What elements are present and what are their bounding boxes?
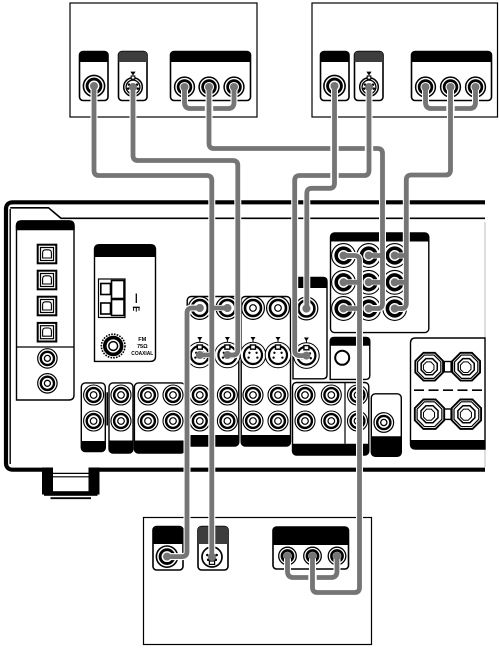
crossing gap over loop A [205, 104, 213, 113]
jack A2 [124, 76, 143, 96]
main block audio jacks [190, 385, 210, 405]
FM coaxial jack [101, 334, 125, 358]
optical block [17, 221, 75, 400]
block D3 component in [273, 527, 349, 569]
left block jacks [38, 349, 57, 368]
svg-text:75Ω: 75Ω [137, 344, 148, 350]
cable C5 s-video from device B [295, 87, 369, 356]
sub jack [374, 413, 394, 433]
jacks D3 [279, 547, 297, 565]
device A plugs [90, 82, 98, 90]
cable loop device B component [426, 86, 476, 109]
speaker terminals row1 [444, 362, 451, 372]
crossing gap over loop C [308, 573, 316, 582]
block B3 component out [412, 52, 492, 101]
tv-sat video jack [295, 297, 318, 320]
antenna wire symbol + ground [133, 294, 140, 312]
cable loop device A component [185, 86, 235, 109]
crossing gap over C5 [330, 171, 338, 180]
jack A1 [83, 75, 104, 96]
s-video jacks row [187, 342, 213, 368]
speaker dashes [414, 389, 485, 391]
s-video markers [197, 337, 202, 343]
block A3 component out [171, 52, 251, 101]
cable C4 video from device B [307, 86, 335, 309]
svg-text:COAXIAL: COAXIAL [131, 351, 154, 357]
component jacks 3x3 [332, 244, 356, 268]
sub block [371, 394, 401, 457]
audio block R [293, 383, 369, 456]
jack B1 [324, 75, 345, 96]
cable C3 component from device A [209, 86, 383, 309]
separator [106, 392, 108, 425]
foot [42, 468, 100, 499]
device C plugs [163, 553, 171, 561]
AM terminals [99, 279, 126, 318]
marker B2 [366, 72, 371, 76]
receiver right faint edge [484, 222, 486, 467]
jacks B3 [416, 77, 436, 97]
block A1 video out [80, 52, 109, 101]
block D2 s-video in [198, 527, 228, 571]
cable C1 video from device A + monitor s-video out [94, 86, 227, 557]
device B plugs [331, 82, 339, 90]
jack D2 [202, 547, 222, 567]
block B2 s-video out [355, 52, 384, 101]
block B1 video out [321, 52, 350, 101]
svg-text:FM: FM [138, 337, 146, 343]
device box C [144, 518, 372, 645]
receiver outer border [6, 202, 485, 469]
ctrl block [330, 337, 370, 379]
component plugs [340, 252, 348, 260]
video in jacks row [188, 297, 211, 320]
block A2 s-video out [119, 52, 148, 101]
foot gap in bottom border [53, 466, 89, 474]
audio block L2 [109, 383, 133, 453]
component block [331, 233, 429, 333]
speaker block [411, 338, 486, 449]
ctrl jack [335, 351, 349, 365]
cable C2 s-video from device A [133, 87, 238, 355]
tv-sat block [293, 278, 327, 379]
cable monitor video out [167, 308, 200, 557]
crossing gap over loop B [446, 104, 454, 113]
main AV block [187, 297, 239, 447]
audio block L3 [134, 383, 185, 453]
audio block L1 [81, 383, 105, 452]
antenna block [95, 245, 156, 362]
block D1 video in [153, 527, 183, 571]
optical connectors [38, 245, 57, 264]
marker A2 [130, 72, 135, 76]
device box B [312, 3, 498, 117]
device box A [70, 3, 257, 117]
crossing gaps over C3 [330, 144, 338, 153]
cable C6 component from device B [395, 86, 451, 309]
tv-sat s-video jack [294, 343, 320, 369]
tv-sat marker [304, 338, 309, 344]
jacks A3 [175, 77, 195, 97]
jack D1 [156, 546, 177, 567]
receiver inner lip [9, 209, 11, 464]
cable monitor component out [313, 256, 360, 593]
receiver video row plugs [196, 304, 204, 312]
cable loop device C component [288, 556, 338, 578]
speaker terminals row2 [444, 409, 451, 419]
main AV block 2 [241, 297, 290, 447]
jack B2 [360, 76, 379, 96]
receiver s-video row plugs [196, 351, 204, 359]
